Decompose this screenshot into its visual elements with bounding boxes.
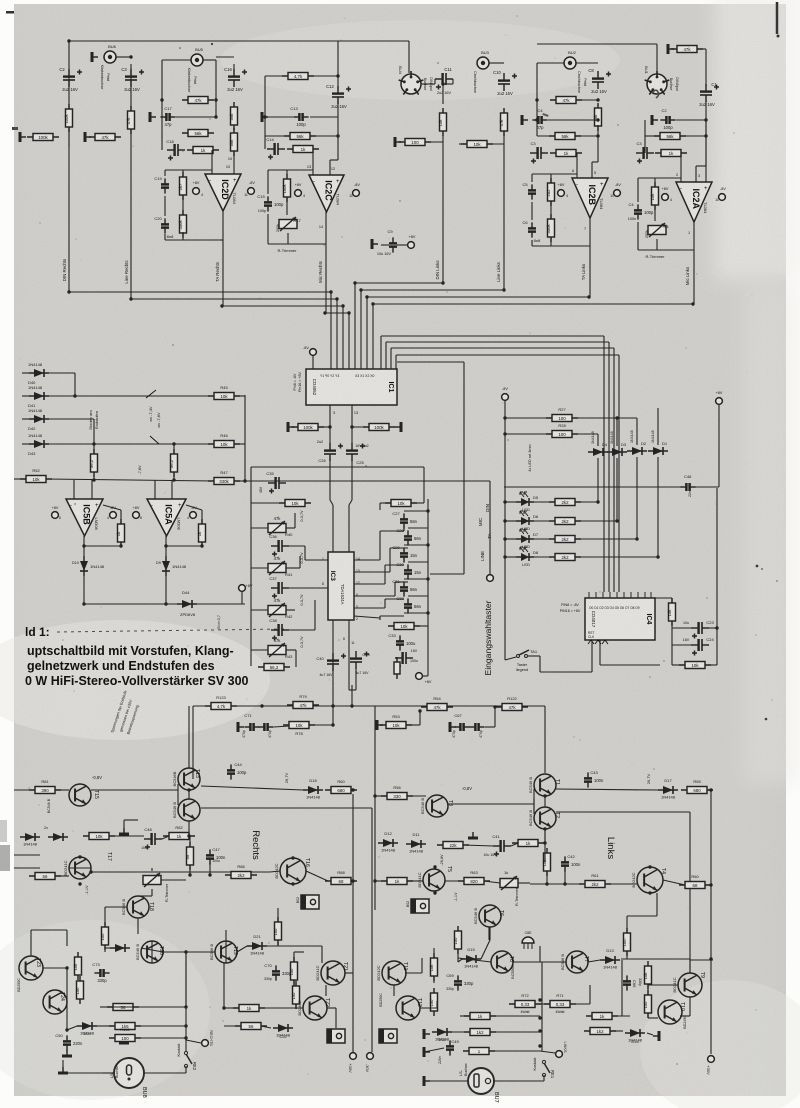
label RECHTS <box>209 1030 213 1046</box>
wire <box>354 583 385 585</box>
wire <box>161 100 163 133</box>
transistor T23 <box>19 956 43 980</box>
wire <box>531 240 533 246</box>
potentiometer R17 <box>279 217 297 231</box>
label C33 <box>388 633 396 638</box>
label C25 <box>356 460 364 465</box>
terminal pin4 +8V <box>193 188 200 195</box>
resistor R20 <box>187 147 219 154</box>
resistor R27 <box>546 415 578 422</box>
wire <box>427 640 429 676</box>
relay contact RE2 <box>184 1051 197 1070</box>
label C18 <box>166 139 174 144</box>
wire <box>265 116 293 118</box>
wire <box>433 976 435 983</box>
label C12 <box>326 84 334 89</box>
wire <box>657 457 659 557</box>
wire T13 collector <box>188 706 190 768</box>
wire <box>663 880 685 885</box>
relay contact RE1 <box>542 1060 555 1078</box>
wire <box>287 233 289 244</box>
DIN socket BU1 <box>645 71 670 95</box>
wire <box>375 795 387 797</box>
op-amp IC2B <box>572 178 608 218</box>
diode D19 <box>20 833 40 847</box>
label Klinkenbuchse <box>100 65 104 90</box>
wire <box>618 355 620 592</box>
label C8 <box>588 68 594 73</box>
wire <box>332 505 334 552</box>
label -8V <box>720 187 726 191</box>
label C5 <box>522 182 528 187</box>
wire <box>626 916 628 933</box>
ground <box>395 137 401 147</box>
wire <box>234 443 245 445</box>
label 1N4148 D43 <box>28 433 43 438</box>
resistor R56 <box>381 793 413 800</box>
label TA Links <box>581 263 586 280</box>
label 100n <box>628 217 636 221</box>
wire <box>345 972 353 974</box>
wire <box>458 959 462 962</box>
capacitor C28 <box>404 530 422 545</box>
terminal +8V a <box>52 512 59 519</box>
wire <box>424 1080 468 1082</box>
label +8V <box>409 235 416 239</box>
resistor R54 <box>421 704 453 711</box>
wire <box>66 930 68 946</box>
label C31 <box>392 579 400 584</box>
label C4 <box>628 202 634 207</box>
wire <box>116 56 131 58</box>
ground <box>58 1067 68 1073</box>
wire <box>216 56 234 58</box>
capacitor C35 <box>268 477 286 494</box>
wire <box>14 789 35 791</box>
resistor R60 <box>325 787 357 794</box>
wire <box>91 480 93 499</box>
terminal -8V a <box>110 512 117 519</box>
IC4 pin ticks <box>589 592 651 598</box>
wire <box>55 875 69 877</box>
resistor R31 <box>549 536 581 543</box>
wire <box>424 1048 444 1052</box>
wire pin stub <box>385 342 387 369</box>
wire <box>647 1033 653 1035</box>
label 4 <box>670 198 672 202</box>
wire <box>564 870 566 884</box>
ground <box>424 1076 430 1086</box>
label 6 <box>572 169 574 173</box>
wire T17 row <box>91 871 270 873</box>
label 11 <box>349 194 353 198</box>
resistor R77 <box>429 988 438 1016</box>
resistor R3 <box>650 182 659 210</box>
wire <box>166 545 202 547</box>
wire <box>379 616 381 620</box>
wire <box>329 160 331 175</box>
label R40 <box>285 532 293 537</box>
label BU5 <box>195 47 204 52</box>
wire <box>718 404 720 487</box>
wire <box>220 239 223 241</box>
wire <box>591 640 593 672</box>
terminal pin +8V <box>662 194 669 201</box>
wire <box>505 538 516 540</box>
TO220 case <box>411 899 429 913</box>
resistor R34 <box>679 662 711 669</box>
resistor R85 <box>29 873 61 880</box>
label 2x <box>44 826 48 830</box>
wire <box>414 625 428 627</box>
jack BU2 <box>564 57 576 69</box>
wire <box>165 576 167 604</box>
wire <box>676 119 706 121</box>
label R63 <box>470 870 478 875</box>
potentiometer R62 <box>500 876 518 890</box>
wire <box>135 1006 186 1008</box>
resistor R96 <box>388 623 420 630</box>
label 8 <box>140 516 142 520</box>
wire -30V rail <box>371 808 373 1052</box>
label D13 <box>606 948 614 953</box>
terminal +8V c <box>487 575 494 582</box>
label 330p <box>264 977 272 981</box>
label D7 <box>533 532 539 537</box>
wire tone left rail <box>250 467 252 666</box>
wire <box>488 927 490 940</box>
wire <box>84 545 121 547</box>
wire <box>535 1003 550 1005</box>
capacitor C37 <box>271 582 289 599</box>
wire <box>330 292 332 369</box>
transistor T8 <box>491 951 514 973</box>
label BU4 <box>398 66 403 75</box>
wire <box>458 958 491 962</box>
wire <box>225 941 227 963</box>
capacitor C39x <box>350 651 369 669</box>
label C17 <box>164 106 172 111</box>
wire pin stub <box>390 348 392 369</box>
capacitor C30 <box>404 564 422 579</box>
resistor R25 <box>64 104 73 132</box>
label an -7,8V <box>156 412 161 427</box>
wire <box>489 927 491 940</box>
label 13 <box>354 411 358 415</box>
label BC546 B <box>47 798 51 813</box>
resistor R29 <box>549 499 581 506</box>
label R-Trimmer <box>515 887 519 906</box>
label C14 <box>266 137 274 142</box>
ground <box>424 1029 430 1039</box>
label C1 <box>711 82 717 87</box>
resistor R32 <box>549 554 581 561</box>
label D40 <box>28 380 36 385</box>
label 2u2 16V <box>437 91 452 95</box>
wire <box>189 865 191 875</box>
label +8V <box>193 181 200 185</box>
capacitor C4 <box>532 116 547 130</box>
wire <box>616 418 618 446</box>
wire <box>375 880 387 882</box>
wire <box>621 960 623 1016</box>
resistor R86 <box>225 872 257 879</box>
label Pin16 = +8V <box>298 372 302 392</box>
wire <box>484 881 500 883</box>
wire <box>445 880 464 882</box>
label C8E <box>525 931 532 935</box>
ground <box>668 44 674 54</box>
capacitor C8 <box>591 71 611 94</box>
wire <box>102 1072 114 1074</box>
wire <box>548 119 598 121</box>
label D11 <box>412 832 420 837</box>
label C10 <box>493 70 501 75</box>
wire <box>448 803 534 805</box>
wire <box>176 116 216 118</box>
wire <box>163 951 215 953</box>
wire <box>689 960 691 973</box>
capacitor C41 <box>493 840 511 857</box>
label R27 <box>558 407 566 412</box>
resistor R55 <box>681 787 713 794</box>
wire <box>705 664 717 666</box>
wire <box>408 561 428 563</box>
label Spannungen der Endstufe <box>110 690 127 733</box>
IC IC4 <box>585 598 655 640</box>
label BU6 <box>108 44 117 49</box>
resistor R26 <box>27 134 59 141</box>
label C69 <box>446 973 454 978</box>
wire <box>93 472 95 480</box>
wire <box>540 1051 555 1053</box>
wire <box>407 795 426 797</box>
label 470p <box>479 730 483 738</box>
wire <box>654 205 656 221</box>
label 14 <box>319 225 323 229</box>
wire <box>267 214 269 244</box>
label 16V <box>683 638 690 642</box>
diode D20 <box>48 833 68 841</box>
wire <box>286 170 288 175</box>
wire <box>532 173 577 175</box>
resistor R15 <box>229 102 238 130</box>
label C66 <box>632 978 642 988</box>
label R28 <box>558 423 566 428</box>
wire <box>671 628 673 645</box>
transistor T13 <box>172 768 200 790</box>
diode D21 <box>247 942 267 956</box>
wire right rail <box>427 499 429 640</box>
label TA Rechts <box>215 261 220 282</box>
wire <box>657 408 659 445</box>
wire top-right rail <box>537 43 657 45</box>
label C35 <box>266 471 274 476</box>
label D9 <box>156 561 161 565</box>
label C43 <box>590 770 598 775</box>
wire <box>592 161 598 163</box>
label C37 <box>269 576 277 581</box>
wire <box>420 1007 437 1009</box>
wire <box>277 940 279 946</box>
transistor T18 <box>121 896 154 918</box>
diode D2 <box>627 447 647 455</box>
resistor R82 <box>163 833 195 840</box>
label C42 <box>567 854 575 859</box>
label Buchse <box>669 78 673 91</box>
wire <box>505 556 516 558</box>
resistor R70 <box>584 1028 616 1035</box>
label C2 <box>59 67 65 72</box>
transistor T12 <box>396 996 422 1020</box>
label 26,7V <box>284 772 289 783</box>
resistor R67 <box>542 848 551 876</box>
label C46 <box>684 474 692 497</box>
label PIN16 = +8V <box>560 609 581 613</box>
wire <box>66 968 68 990</box>
wire <box>337 102 339 136</box>
ground <box>424 1047 430 1057</box>
label 10 <box>228 157 232 161</box>
resistor R10 <box>499 108 508 136</box>
resistor R47 <box>208 478 240 485</box>
label +30V <box>348 1063 353 1073</box>
terminal pin11 -8V <box>248 188 255 195</box>
op-amp IC2C <box>309 175 344 212</box>
label R42 <box>285 614 293 619</box>
terminal pin -8V <box>353 190 360 197</box>
wire <box>97 1025 113 1027</box>
capacitor C1 <box>699 84 719 107</box>
wire <box>164 234 166 240</box>
resistor R122 <box>496 704 528 711</box>
resistor R13c <box>399 139 431 146</box>
wire <box>533 789 535 814</box>
wire <box>270 871 280 872</box>
diode D1 <box>648 447 668 455</box>
label +8V <box>133 506 140 510</box>
wire <box>120 510 122 524</box>
label +8V <box>295 183 302 187</box>
wire center rail <box>374 706 376 910</box>
label R122 <box>507 696 517 701</box>
label 4u7 16V <box>319 673 333 677</box>
wire <box>534 556 555 558</box>
wire <box>182 170 184 176</box>
wire <box>360 290 362 369</box>
wire <box>104 945 106 952</box>
ground <box>20 132 26 142</box>
resistor R94 <box>233 1005 265 1012</box>
wire <box>327 1007 336 1009</box>
capacitor C40x <box>327 653 346 671</box>
label C71 <box>244 713 252 718</box>
wire <box>626 951 628 959</box>
resistor R64 <box>381 878 413 885</box>
label BU3 <box>481 50 490 55</box>
wire <box>537 135 555 137</box>
wire <box>165 169 212 171</box>
wire DIN Links vertical <box>442 135 444 283</box>
wire <box>381 244 389 246</box>
ground <box>85 132 91 142</box>
label 2 <box>676 173 678 177</box>
label D18 <box>309 778 317 783</box>
label Buchse <box>423 78 427 91</box>
wire <box>154 480 156 499</box>
wire <box>186 1040 201 1043</box>
IC4 clock arrows <box>588 640 608 644</box>
label R88 <box>337 870 345 875</box>
wire <box>705 49 707 86</box>
capacitor C33 <box>396 635 416 650</box>
ground <box>468 832 478 838</box>
wire <box>534 501 555 503</box>
wire <box>69 867 91 869</box>
label TA <box>487 532 492 538</box>
wire <box>380 615 404 617</box>
wire <box>295 1004 297 1008</box>
label +8V <box>662 187 669 191</box>
wire TA Rechts vertical <box>222 211 224 306</box>
wire <box>151 941 153 963</box>
wire <box>408 41 410 73</box>
label C3 <box>121 67 127 72</box>
capacitor C67 <box>454 723 469 731</box>
wire <box>612 1015 630 1017</box>
wire D13 rail <box>621 958 690 960</box>
wire to output Rechts <box>332 620 334 700</box>
resistor R46 <box>208 441 240 448</box>
label D43 <box>28 451 36 456</box>
resistor R76 <box>429 953 438 981</box>
wire <box>544 796 546 807</box>
resistor R50 <box>197 519 206 547</box>
transistor T16 <box>274 858 310 884</box>
capacitor C12 <box>331 86 351 109</box>
wire <box>671 598 673 602</box>
wire <box>354 595 395 597</box>
label D5 <box>533 495 539 500</box>
terminal RECHTS out <box>202 1040 209 1047</box>
diode D41 <box>29 392 49 400</box>
wire <box>22 418 29 420</box>
transistor T17 <box>63 852 112 879</box>
label R-Trimmer <box>646 254 666 259</box>
wire bus Line R <box>131 298 337 300</box>
ground <box>377 720 383 730</box>
label DIN <box>485 504 490 512</box>
caption line 4 <box>25 674 249 688</box>
label Mic Links <box>685 266 690 285</box>
switch TA1 <box>517 650 530 658</box>
diode labels D1-D4 <box>591 430 668 447</box>
transistor T19 <box>209 941 238 963</box>
label D41 <box>28 403 36 408</box>
wire bus Mic L <box>373 303 694 305</box>
label C36 <box>269 534 277 539</box>
wire <box>405 972 422 974</box>
jack BU6 <box>104 51 116 63</box>
terminal LINKS out <box>556 1051 563 1058</box>
wire from IC3 b <box>332 700 334 725</box>
wire <box>540 671 592 673</box>
wire <box>511 843 518 846</box>
wire <box>380 530 404 532</box>
wire <box>337 136 339 160</box>
terminal +8V <box>408 242 415 249</box>
wire <box>539 656 541 672</box>
